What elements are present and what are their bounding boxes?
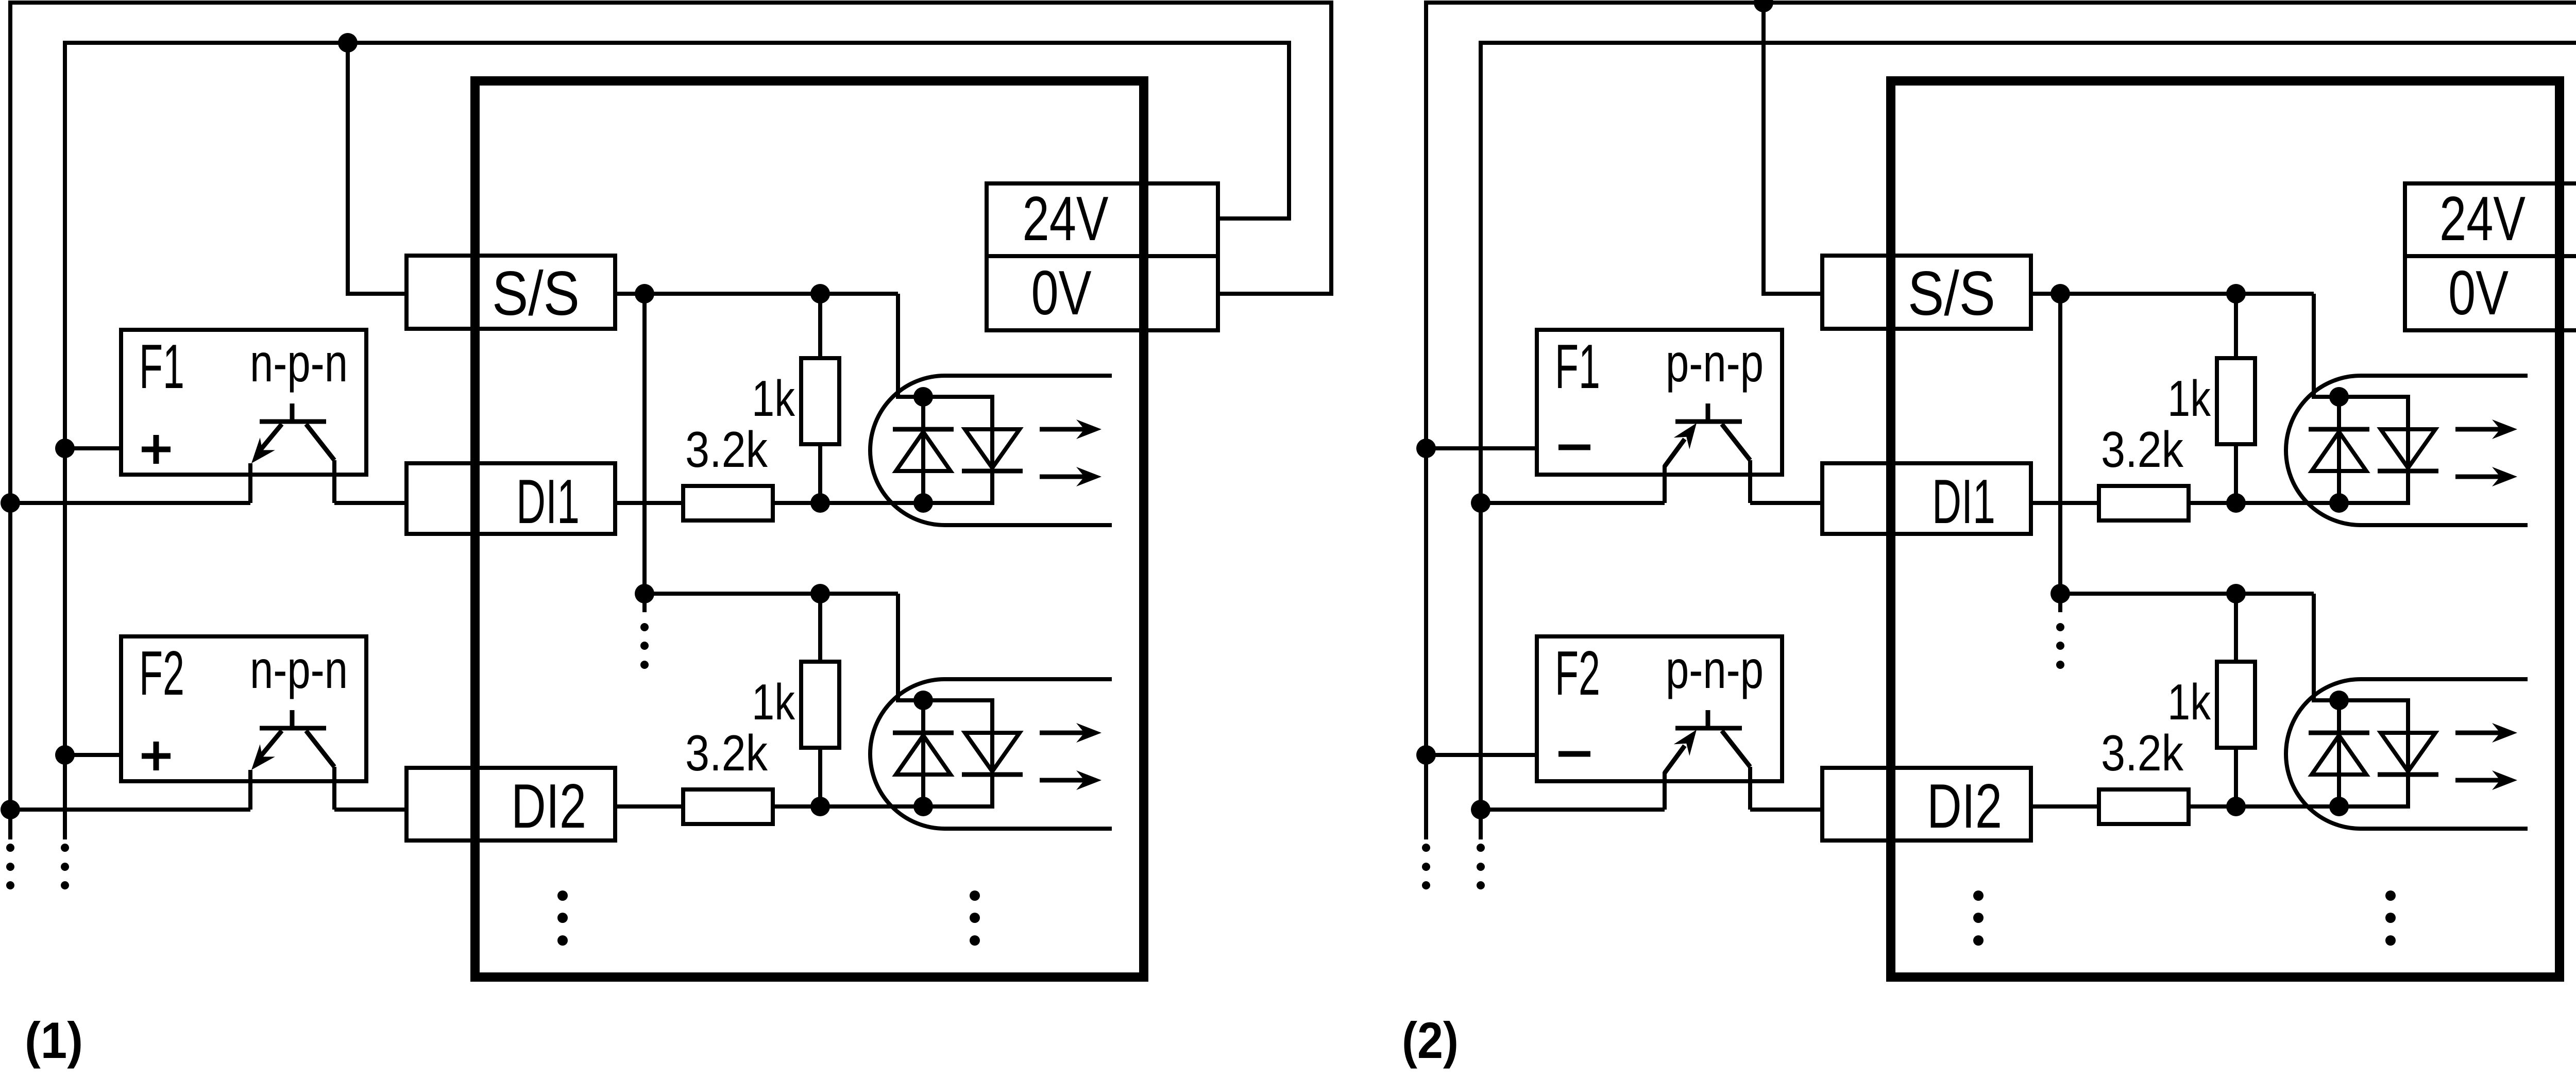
junction dot S/S rail channel 2 (2) xyxy=(2050,584,2070,603)
svg-text:n-p-n: n-p-n xyxy=(250,640,348,700)
junction dot sensor F2 emitter on 0V rail (1) xyxy=(1,800,20,819)
wire to optocoupler anode DI1 (2) xyxy=(2314,294,2339,397)
label DI1 (1) xyxy=(516,466,580,536)
wire sensor F1 plus to 24V rail (1) xyxy=(65,446,121,450)
sensor box F2 (2) xyxy=(1537,636,1782,781)
junction dot optocoupler bottom DI2 (2) xyxy=(2329,797,2349,816)
resistor 1k DI1 (1) xyxy=(801,358,839,444)
label F1 (1) xyxy=(139,331,184,401)
wire 24V inner loop (1) xyxy=(65,43,1289,839)
terminal box S/S (1) xyxy=(406,256,615,329)
svg-text:0V: 0V xyxy=(2448,258,2509,328)
LED diode down DI2 (2) xyxy=(2378,733,2438,775)
terminal box DI2 (1) xyxy=(406,768,615,840)
resistor 1k DI1 (2) xyxy=(2217,358,2255,444)
wire sensor F2 minus to 0V rail (2) xyxy=(1426,753,1537,757)
label 3.2k DI2 (1) xyxy=(685,725,768,781)
label 1k DI1 (1) xyxy=(752,370,795,427)
wire DI1 terminal to resistor (1) xyxy=(615,501,683,505)
polarity plus F1 (1) xyxy=(142,435,171,464)
junction dot sensor F1 emitter on 24V rail (2) xyxy=(1471,493,1490,513)
svg-text:1k: 1k xyxy=(752,674,795,730)
wire to optocoupler anode DI2 (2) xyxy=(2314,594,2339,700)
resistor 1k DI2 (2) xyxy=(2217,662,2255,748)
wire 3.2k to optocoupler DI2 (1) xyxy=(773,804,923,809)
label DI2 (2) xyxy=(1927,771,2002,841)
continuation dots below optocouplers (2) xyxy=(2385,890,2396,946)
svg-text:F1: F1 xyxy=(139,331,184,401)
svg-text:n-p-n: n-p-n xyxy=(250,333,348,393)
wire 3.2k to optocoupler DI2 (2) xyxy=(2189,804,2339,809)
wire S/S internal rail (2) xyxy=(2058,294,2062,612)
light output arrow 1 DI1 (1) xyxy=(1040,419,1101,439)
terminal box 24V 0V (2) xyxy=(2405,183,2576,330)
wire 24V inner loop (2) xyxy=(1481,43,2576,839)
transistor n-p-n F1 (1) xyxy=(251,403,334,463)
label DI2 (1) xyxy=(511,771,586,841)
junction dot 1k bottom DI1 (1) xyxy=(810,493,830,513)
wire to optocoupler anode DI2 (1) xyxy=(898,594,923,700)
transistor n-p-n F2 (1) xyxy=(251,710,334,770)
junction dot optocoupler bottom DI1 (2) xyxy=(2329,493,2349,513)
optocoupler input capsule DI1 (2) xyxy=(2286,376,2528,525)
continuation dots S/S rail (1) xyxy=(640,623,649,669)
label F1 (2) xyxy=(1555,331,1600,401)
continuation dots 0V rail (1) xyxy=(6,844,14,889)
junction dot optocoupler top DI2 (2) xyxy=(2329,691,2349,710)
junction dot optocoupler top DI1 (2) xyxy=(2329,387,2349,407)
svg-text:24V: 24V xyxy=(2439,183,2526,254)
svg-text:(2): (2) xyxy=(1402,1012,1459,1069)
svg-text:DI1: DI1 xyxy=(516,466,580,536)
label 1k DI2 (2) xyxy=(2167,674,2211,730)
svg-text:24V: 24V xyxy=(1023,183,1109,254)
wire emitter stub F1 (2) xyxy=(1663,465,1667,503)
label F2 (2) xyxy=(1555,638,1600,708)
junction dot optocoupler bottom DI2 (1) xyxy=(913,797,933,816)
junction dot 1k bottom DI2 (2) xyxy=(2226,797,2246,816)
wire emitter stub F2 (1) xyxy=(248,770,252,810)
LED diode down DI1 (1) xyxy=(962,429,1023,471)
svg-text:F2: F2 xyxy=(139,638,184,708)
svg-text:3.2k: 3.2k xyxy=(2101,421,2184,478)
label S/S (1) xyxy=(492,258,580,328)
light output arrow 1 DI1 (2) xyxy=(2455,419,2517,439)
sensor box F1 (2) xyxy=(1537,330,1782,475)
wire DI2 terminal to resistor (2) xyxy=(2031,804,2099,809)
wire emitter stub F2 (2) xyxy=(1663,772,1667,810)
svg-text:DI1: DI1 xyxy=(1932,466,1995,536)
transistor p-n-p F2 (2) xyxy=(1665,710,1750,773)
wire 1k bottom lead DI1 (2) xyxy=(2234,444,2238,503)
junction dot 1k bottom DI1 (2) xyxy=(2226,493,2246,513)
LED diode down DI2 (1) xyxy=(962,733,1023,775)
continuation dots below DI2 (2) xyxy=(1973,890,1984,946)
sensor box F1 (1) xyxy=(121,330,366,475)
wire 1k top lead DI2 (2) xyxy=(2234,594,2238,662)
wire collector to DI2 (1) xyxy=(334,808,406,812)
svg-text:S/S: S/S xyxy=(492,258,580,328)
optocoupler LED pair frame DI2 (1) xyxy=(923,700,992,806)
wire sensor F1 emitter to 0V rail (1) xyxy=(10,501,250,505)
wire sensor F2 emitter to 24V rail (2) xyxy=(1481,808,1665,812)
optocoupler LED pair frame DI1 (2) xyxy=(2339,397,2408,503)
continuation dots below DI2 (1) xyxy=(557,890,568,946)
wire 1k top lead DI1 (2) xyxy=(2234,294,2238,358)
wire collector stub F1 (1) xyxy=(332,460,336,503)
wire S/S branch (1) xyxy=(348,43,406,294)
junction dot optocoupler top DI2 (1) xyxy=(913,691,933,710)
caption (1) xyxy=(25,1012,83,1069)
svg-text:S/S: S/S xyxy=(1908,258,1995,328)
wire sensor F2 emitter to 0V rail (1) xyxy=(10,808,250,812)
resistor 3.2k DI1 (2) xyxy=(2099,486,2189,520)
label 24V (1) xyxy=(1023,183,1109,254)
svg-text:1k: 1k xyxy=(2167,370,2211,427)
label S/S (2) xyxy=(1908,258,1995,328)
wire S/S internal rail (1) xyxy=(642,294,647,612)
wire S/S branch (2) xyxy=(1764,3,1822,294)
label DI1 (2) xyxy=(1932,466,1995,536)
optocoupler input capsule DI2 (2) xyxy=(2286,679,2528,829)
polarity minus F2 (2) xyxy=(1558,751,1590,757)
wire channel 2 top rail (1) xyxy=(645,592,898,596)
LED diode up DI2 (2) xyxy=(2309,733,2369,775)
junction dot sensor F2 plus on 24V rail (1) xyxy=(55,745,75,765)
resistor 1k DI2 (1) xyxy=(801,662,839,748)
wire channel 2 top rail (2) xyxy=(2060,592,2314,596)
light output arrow 1 DI2 (2) xyxy=(2455,723,2517,743)
label 3.2k DI1 (2) xyxy=(2101,421,2184,478)
wire collector stub F1 (2) xyxy=(1748,460,1752,503)
junction dot 1k top DI1 (2) xyxy=(2226,284,2246,304)
label 0V (1) xyxy=(1031,258,1092,328)
terminal box DI1 (2) xyxy=(1822,463,2031,534)
wire 1k bottom lead DI2 (1) xyxy=(818,748,822,806)
label n-p-n F1 (1) xyxy=(250,333,348,393)
terminal box DI2 (2) xyxy=(1822,768,2031,840)
wire collector to DI1 (2) xyxy=(1750,501,1822,505)
PLC module box (1) xyxy=(475,81,1144,977)
terminal box 24V 0V (1) xyxy=(987,183,1218,330)
svg-text:1k: 1k xyxy=(2167,674,2211,730)
wire 1k bottom lead DI2 (2) xyxy=(2234,748,2238,806)
svg-text:DI2: DI2 xyxy=(1927,771,2002,841)
junction dot S/S rail (2) xyxy=(2050,284,2070,304)
junction dot 1k top DI2 (1) xyxy=(810,584,830,603)
resistor 3.2k DI1 (1) xyxy=(683,486,773,520)
light output arrow 2 DI1 (2) xyxy=(2455,467,2517,486)
junction dot sensor F2 minus on 0V rail (2) xyxy=(1416,745,1436,765)
wire 1k bottom lead DI1 (1) xyxy=(818,444,822,503)
svg-text:F1: F1 xyxy=(1555,331,1600,401)
label 1k DI1 (2) xyxy=(2167,370,2211,427)
light output arrow 2 DI2 (1) xyxy=(1040,770,1101,790)
svg-text:3.2k: 3.2k xyxy=(685,421,768,478)
wire 1k top lead DI2 (1) xyxy=(818,594,822,662)
optocoupler input capsule DI2 (1) xyxy=(870,679,1112,829)
optocoupler input capsule DI1 (1) xyxy=(870,376,1112,525)
LED diode up DI1 (1) xyxy=(893,429,954,471)
wire 3.2k to optocoupler DI1 (2) xyxy=(2189,501,2339,505)
wire DI2 terminal to resistor (1) xyxy=(615,804,683,809)
wire sensor F1 minus to 0V rail (2) xyxy=(1426,446,1537,450)
LED diode up DI1 (2) xyxy=(2309,429,2369,471)
junction dot 1k bottom DI2 (1) xyxy=(810,797,830,816)
svg-text:1k: 1k xyxy=(752,370,795,427)
resistor 3.2k DI2 (1) xyxy=(683,789,773,824)
junction dot sensor F1 emitter on 0V rail (1) xyxy=(1,493,20,513)
wire 1k top lead DI1 (1) xyxy=(818,294,822,358)
svg-text:p-n-p: p-n-p xyxy=(1666,640,1764,700)
terminal box DI1 (1) xyxy=(406,463,615,534)
wire DI1 terminal to resistor (2) xyxy=(2031,501,2099,505)
svg-text:F2: F2 xyxy=(1555,638,1600,708)
PLC module box (2) xyxy=(1891,81,2560,977)
svg-text:p-n-p: p-n-p xyxy=(1666,333,1764,393)
wire emitter stub F1 (1) xyxy=(248,463,252,503)
label p-n-p F2 (2) xyxy=(1666,640,1764,700)
junction dot S/S branch on 0V wire (2) xyxy=(1754,0,1773,12)
resistor 3.2k DI2 (2) xyxy=(2099,789,2189,824)
wire collector stub F2 (2) xyxy=(1748,767,1752,810)
sensor box F2 (1) xyxy=(121,636,366,781)
caption (2) xyxy=(1402,1012,1459,1069)
junction dot 1k top DI2 (2) xyxy=(2226,584,2246,603)
wire to optocoupler anode DI1 (1) xyxy=(898,294,923,397)
wire collector to DI1 (1) xyxy=(334,501,406,505)
junction dot optocoupler bottom DI1 (1) xyxy=(913,493,933,513)
continuation dots 24V rail (1) xyxy=(61,844,69,889)
wire 3.2k to optocoupler DI1 (1) xyxy=(773,501,923,505)
optocoupler LED pair frame DI2 (2) xyxy=(2339,700,2408,806)
label n-p-n F2 (1) xyxy=(250,640,348,700)
wire collector stub F2 (1) xyxy=(332,767,336,810)
label F2 (1) xyxy=(139,638,184,708)
label p-n-p F1 (2) xyxy=(1666,333,1764,393)
LED diode down DI1 (2) xyxy=(2378,429,2438,471)
svg-text:(1): (1) xyxy=(25,1012,83,1069)
wire 0V outer loop (1) xyxy=(10,3,1331,839)
continuation dots below optocouplers (1) xyxy=(970,890,980,946)
continuation dots S/S rail (2) xyxy=(2056,623,2064,669)
wire sensor F1 emitter to 24V rail (2) xyxy=(1481,501,1665,505)
junction dot optocoupler top DI1 (1) xyxy=(913,387,933,407)
wire S/S to pull-up network DI1 (1) xyxy=(615,292,898,296)
junction dot S/S branch on 24V wire (1) xyxy=(338,33,358,53)
continuation dots 0V rail (2) xyxy=(1422,844,1430,889)
junction dot S/S rail channel 2 (1) xyxy=(635,584,654,603)
light output arrow 1 DI2 (1) xyxy=(1040,723,1101,743)
label 1k DI2 (1) xyxy=(752,674,795,730)
junction dot 1k top DI1 (1) xyxy=(810,284,830,304)
polarity plus F2 (1) xyxy=(142,742,171,770)
label 3.2k DI2 (2) xyxy=(2101,725,2184,781)
junction dot sensor F2 emitter on 24V rail (2) xyxy=(1471,800,1490,819)
wire sensor F2 plus to 24V rail (1) xyxy=(65,753,121,757)
junction dot sensor F1 plus on 24V rail (1) xyxy=(55,439,75,458)
junction dot sensor F1 minus on 0V rail (2) xyxy=(1416,439,1436,458)
label 3.2k DI1 (1) xyxy=(685,421,768,478)
terminal box S/S (2) xyxy=(1822,256,2031,329)
light output arrow 2 DI1 (1) xyxy=(1040,467,1101,486)
transistor p-n-p F1 (2) xyxy=(1665,403,1750,466)
svg-text:DI2: DI2 xyxy=(511,771,586,841)
label 0V (2) xyxy=(2448,258,2509,328)
svg-text:3.2k: 3.2k xyxy=(685,725,768,781)
junction dot S/S rail (1) xyxy=(635,284,654,304)
optocoupler LED pair frame DI1 (1) xyxy=(923,397,992,503)
LED diode up DI2 (1) xyxy=(893,733,954,775)
wire 0V outer loop (2) xyxy=(1426,3,2576,839)
polarity minus F1 (2) xyxy=(1558,445,1590,450)
label 24V (2) xyxy=(2439,183,2526,254)
continuation dots 24V rail (2) xyxy=(1477,844,1485,889)
svg-text:0V: 0V xyxy=(1031,258,1092,328)
wire collector to DI2 (2) xyxy=(1750,808,1822,812)
wire S/S to pull-up network DI1 (2) xyxy=(2031,292,2314,296)
light output arrow 2 DI2 (2) xyxy=(2455,770,2517,790)
svg-text:3.2k: 3.2k xyxy=(2101,725,2184,781)
